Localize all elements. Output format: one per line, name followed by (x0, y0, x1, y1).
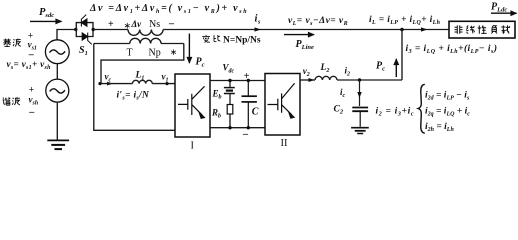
label 谐波 (harmonic) (3, 97, 11, 105)
svg-text:L1: L1 (135, 71, 145, 82)
svg-text:Pc: Pc (376, 61, 385, 73)
svg-text:vL= vs−Δv= vR: vL= vs−Δv= vR (288, 16, 348, 27)
power arrow P_sdc (30, 20, 62, 22)
thyristor S1 bottom (points right) (82, 33, 92, 45)
svg-text:Ns: Ns (149, 19, 160, 30)
capacitor C2 (352, 108, 368, 127)
svg-text:S1: S1 (79, 45, 88, 57)
node i2/ic junction (358, 78, 361, 81)
svg-text:i2 = i3+ic: i2 = i3+ic (376, 107, 415, 118)
IGBT inside converter II (268, 83, 295, 118)
wire inductor to converter I (152, 83, 175, 85)
IGBT inside converter I (178, 86, 205, 118)
current arrow i_s on bus (255, 27, 262, 31)
svg-text:ic: ic (340, 87, 346, 99)
transformer primary top edge (94, 43, 130, 45)
node battery top (228, 79, 231, 82)
capacitor C (242, 81, 257, 128)
wire riser from row to bus (401, 30, 403, 81)
primary winding Np (3 scallops above edge) (130, 38, 161, 43)
label 变比 N=Np/Ns (202, 35, 210, 43)
svg-text:PLdc: PLdc (491, 2, 507, 14)
svg-text:N=Np/Ns: N=Np/Ns (223, 35, 261, 45)
converter I box (175, 74, 210, 137)
inductor L2 (315, 76, 337, 80)
wire source to ground (56, 102, 58, 140)
svg-text:iL = iLP + iLQ+ iLh: iL = iLP + iLQ+ iLh (369, 15, 441, 26)
nonlinear load box (449, 21, 515, 38)
svg-text:PLine: PLine (296, 39, 315, 51)
dc top rail (210, 80, 265, 82)
node: switch right terminal (92, 28, 95, 31)
svg-text:i2q = iLQ + ic: i2q = iLQ + ic (425, 107, 470, 118)
series winding Ns (3 scallops below bus) (128, 30, 163, 36)
svg-text:vc: vc (105, 72, 112, 84)
power arrow P_Line (284, 34, 314, 36)
svg-text:Np: Np (149, 48, 161, 59)
svg-text:v1: v1 (162, 72, 169, 84)
svg-text:i2: i2 (345, 66, 351, 78)
svg-text:I: I (191, 141, 195, 152)
power arrow P_Ldc (491, 12, 517, 14)
svg-text:T: T (127, 48, 133, 59)
dc bottom rail (210, 127, 265, 129)
power arrow P_c down into converter I (188, 34, 190, 64)
label 非线性负载 (nonlinear load) (455, 25, 463, 33)
label 基波 (fundamental) (3, 39, 11, 47)
node: bus junction to shunt branch (400, 28, 404, 32)
svg-text:–: – (242, 129, 249, 140)
wire: primary left lead down to return (94, 44, 175, 131)
ac source v_sh harmonic (46, 79, 69, 102)
converter II box (265, 74, 300, 136)
switch S1 bypass loop frame (76, 23, 93, 37)
node battery bottom (228, 126, 231, 129)
svg-text:–: – (28, 107, 35, 118)
svg-text:+: + (108, 19, 114, 30)
node cap bottom (247, 126, 250, 129)
svg-text:i3 = iLQ + iLh+(iLP− is): i3 = iLQ + iLh+(iLP− is) (406, 43, 498, 55)
svg-text:Psdc: Psdc (39, 7, 54, 19)
svg-text:vs= vs1+ vsh: vs= vs1+ vsh (7, 59, 52, 71)
node: switch left terminal (74, 28, 77, 31)
svg-text:i′s= is/N: i′s= is/N (117, 91, 150, 102)
svg-text:i2d = iLP − is: i2d = iLP − is (425, 91, 470, 102)
svg-text:–: – (168, 19, 175, 30)
ground (source) (47, 140, 69, 149)
node cap top (247, 79, 250, 82)
svg-text:Vdc: Vdc (223, 63, 235, 75)
svg-text:Rb: Rb (211, 108, 221, 120)
node v1 (165, 82, 168, 85)
arrow on v_c row (107, 82, 113, 86)
current arrow toward load (421, 27, 428, 31)
svg-text:C2: C2 (334, 105, 344, 116)
svg-text:Pc: Pc (196, 57, 205, 69)
arrow v2 row (309, 78, 315, 82)
ac source v_s1 fundamental (45, 40, 69, 64)
svg-text:L2: L2 (320, 63, 330, 74)
svg-text:Eb: Eb (212, 89, 222, 101)
resistor R_b (227, 105, 233, 115)
wire L2 to shunt junction and to bus riser (337, 79, 402, 81)
svg-text:∗: ∗ (124, 21, 132, 31)
wire: bus into series winding (93, 29, 128, 31)
power arrow P_c up (395, 59, 397, 77)
svg-text:is: is (255, 14, 261, 26)
inductor L1 (133, 80, 153, 83)
wire ic branch down with arrow (359, 80, 361, 106)
svg-text:II: II (281, 138, 288, 149)
svg-text:Δv =Δv1+Δvh=( vs1− vR)+ vsh: Δv =Δv1+Δvh=( vs1− vR)+ vsh (89, 3, 248, 15)
svg-text:vsh: vsh (29, 95, 39, 107)
wire converter II output (300, 79, 315, 81)
svg-text:v2: v2 (303, 66, 310, 78)
svg-text:∗: ∗ (170, 47, 178, 57)
svg-text:Δv: Δv (131, 19, 143, 29)
wire between sources (56, 64, 58, 80)
brace (418, 84, 425, 133)
thyristor S1 top (points left) (81, 15, 87, 27)
svg-text:i2h = iLh: i2h = iLh (425, 122, 454, 133)
wire v_c row to inductor (101, 83, 133, 85)
battery E_b (224, 81, 235, 105)
node v_c corner (98, 82, 101, 85)
primary top edge right segment (161, 43, 184, 45)
wire: primary right lead down and back to v_c corner (101, 44, 184, 84)
svg-text:C: C (252, 107, 259, 118)
wire: bus from winding to load box (163, 29, 449, 31)
wire: main ac bus from source corner to series winding (57, 30, 76, 41)
ground (C2) (351, 128, 369, 134)
